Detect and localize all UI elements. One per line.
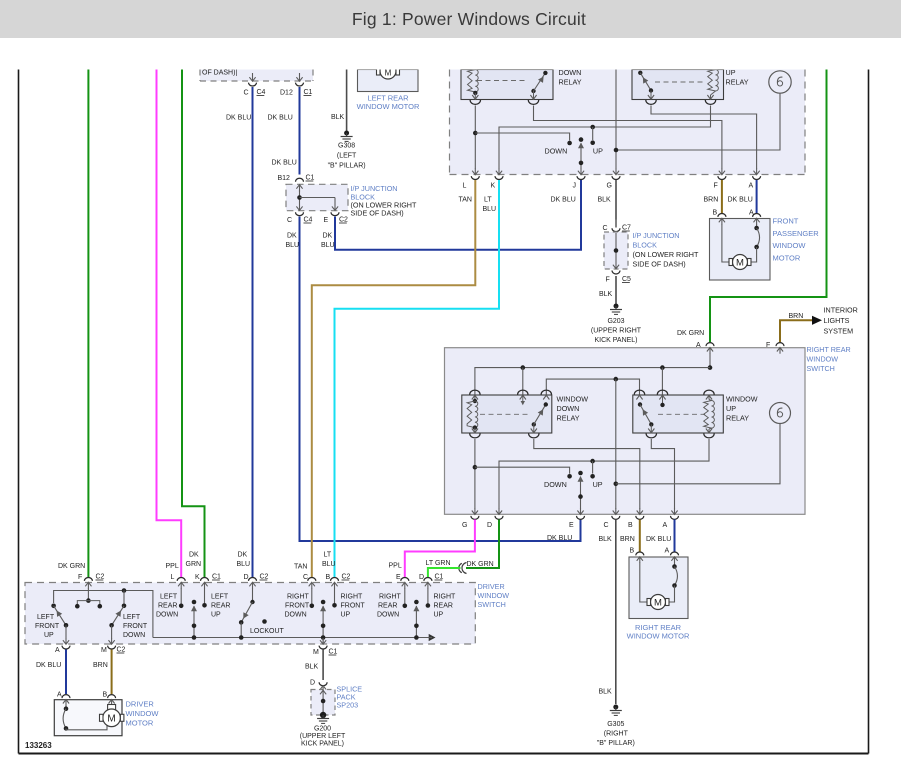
wire down relay coil to pin G [473,439,478,509]
svg-text:WINDOW: WINDOW [807,355,839,364]
svg-text:A: A [665,548,670,555]
right rear motor pin B [630,548,644,564]
svg-text:B12: B12 [278,175,291,182]
driver switch pin M C2 bottom [101,638,126,654]
svg-text:C2: C2 [342,574,351,581]
driver motor pin B [103,692,116,706]
right rear switch pin A [696,342,714,354]
svg-text:C: C [603,225,608,232]
wire DK BLU to driver motor pin A [36,650,66,695]
junction block 1 label [351,184,417,218]
svg-text:LEFT: LEFT [37,614,55,621]
splice pack SP203 box [311,690,335,716]
svg-text:DK GRN: DK GRN [58,563,85,570]
svg-text:DK: DK [323,233,333,240]
svg-text:OF DASH)|: OF DASH)| [202,70,237,77]
lockout switch [239,588,267,640]
svg-text:DK GRN: DK GRN [467,561,494,568]
I/P junction block (cut off at top) [200,70,313,82]
right rear down label (driver switch) [377,594,402,619]
svg-text:SP203: SP203 [337,701,359,710]
svg-text:DOWN: DOWN [123,632,145,639]
wire down relay switch to pin F [534,106,722,170]
driver switch feed bus [54,588,153,637]
motor pin A [749,210,761,225]
svg-text:G305: G305 [607,721,624,728]
svg-text:E: E [569,522,574,529]
driver switch pin L [166,563,186,589]
svg-text:DK BLU: DK BLU [36,662,61,669]
wire pin K to up relay coil [499,106,711,170]
svg-text:D: D [487,522,492,529]
svg-text:GRN: GRN [186,561,202,568]
svg-text:(ON LOWER RIGHT: (ON LOWER RIGHT [633,250,699,259]
passenger motor internal left wire [722,224,729,262]
left front down switch [109,604,126,639]
svg-text:G308: G308 [338,143,355,150]
svg-text:C: C [287,217,292,224]
svg-text:UP: UP [44,632,54,639]
pin D12 C1 of cut junction block [280,73,313,97]
pin C (right rear switch) [604,508,620,529]
svg-text:DK BLU: DK BLU [272,160,297,167]
wire BRN to driver motor pin B [93,650,112,695]
wire coil feed to DOWN contact (top box) [475,133,572,145]
lockout bus [153,634,436,641]
pin E (right rear switch) [569,508,585,529]
wire UP contact feed (right rear switch) [590,461,595,479]
svg-text:L: L [171,574,175,581]
svg-text:UP: UP [726,404,736,413]
svg-text:FRONT: FRONT [341,603,366,610]
right rear window switch box [445,348,806,515]
svg-text:BLU: BLU [322,561,336,568]
lamp wire to ground node [616,94,780,151]
window down relay (top box) [461,70,553,100]
left front up switch [51,604,68,639]
wire up relay switch to pin A (right rear switch) [651,439,674,509]
svg-text:C1: C1 [306,175,315,182]
switch mover to pin J (top box) [578,137,584,169]
driver switch pin F C2 [58,563,105,589]
svg-text:C: C [244,90,249,97]
svg-text:C2: C2 [339,217,348,224]
right rear switch pin F [766,342,784,354]
wire TAN pin L to driver switch pin C [294,180,475,577]
svg-text:G: G [462,522,467,529]
pin C C4 of cut junction block [244,73,266,97]
wire LT GRN splice to driver switch pin D [426,560,461,577]
window down relay pins top [470,390,552,405]
courtesy lamp (right rear switch) [770,403,791,424]
pin A bottom (right rear switch) [663,508,679,529]
svg-text:WINDOW MOTOR: WINDOW MOTOR [357,102,420,111]
svg-text:BRN: BRN [620,536,635,543]
wire DK BLU junction block1 E/C2 to window switch pin J [321,180,581,250]
right rear motor internal left wire [640,563,648,603]
svg-text:SWITCH: SWITCH [478,600,506,609]
passenger motor internal right wire with brush arc [751,224,760,262]
svg-text:BLK: BLK [331,114,345,121]
driver window switch label [478,582,510,609]
svg-text:RIGHT: RIGHT [379,594,402,601]
svg-text:C4: C4 [304,217,313,224]
window up relay box (right rear switch) [633,395,724,433]
motor pin B [713,210,726,225]
svg-text:UP: UP [434,612,444,619]
driver motor pin A [57,692,70,706]
up relay pin (switch) [646,95,656,104]
window up relay switch arm [638,402,654,433]
right front up label [341,594,366,619]
svg-text:TAN: TAN [294,564,307,571]
svg-text:B: B [103,692,108,699]
wire DK BLU D12 to I/P junction block pin B12 [268,87,300,175]
svg-text:K: K [195,574,200,581]
right rear window motor box [629,557,688,619]
front passenger window motor label [773,217,820,263]
svg-text:REAR: REAR [211,603,230,610]
driver switch pin B C2 [326,574,351,589]
svg-text:L: L [463,183,467,190]
wire down relay coil to pin L [473,106,478,170]
svg-text:DOWN: DOWN [545,147,568,156]
pin F contact bracket [75,588,102,609]
svg-text:DOWN: DOWN [377,612,399,619]
svg-text:RELAY: RELAY [557,414,580,423]
svg-text:BLK: BLK [599,689,613,696]
svg-text:MOTOR: MOTOR [126,719,154,728]
pin F C5 of junction block 2 [606,265,632,284]
svg-text:D: D [310,680,315,687]
switch mover to pin E (right rear switch) [578,471,584,509]
svg-text:BLU: BLU [483,206,497,213]
svg-text:DK GRN: DK GRN [677,330,704,337]
svg-text:WINDOW: WINDOW [773,241,807,250]
window down relay pins bottom [470,429,539,438]
svg-text:F: F [78,574,82,581]
driver switch pin D C2 [244,574,269,589]
svg-text:D12: D12 [280,90,293,97]
wire LT BLU pin K to driver switch pin B [322,180,499,577]
driver switch pin M C1 bottom [313,638,338,656]
svg-text:LT: LT [324,552,332,559]
svg-text:LT GRN: LT GRN [426,560,451,567]
up relay pin (coil) [705,95,715,104]
window up relay pins top [634,390,714,407]
svg-text:BRN: BRN [93,662,108,669]
svg-text:K: K [491,183,496,190]
wire coil feed to DOWN contact (right rear switch) [475,467,572,478]
down relay label [559,68,582,87]
window up relay (top box) [632,70,724,100]
svg-text:DK BLU: DK BLU [268,115,293,122]
right rear motor internal right wire with brush arc [669,563,678,603]
svg-text:UP: UP [593,480,603,489]
relay contact bus (right rear switch) [546,377,639,395]
pin C C7 of junction block 2 [603,220,632,236]
svg-text:DOWN: DOWN [544,480,567,489]
svg-text:LEFT: LEFT [211,594,229,601]
left rear switch mover [191,600,197,640]
junction block 1 internal wire [296,190,338,210]
UP label (right rear switch) [593,480,603,489]
right rear motor symbol [647,595,669,610]
svg-text:G203: G203 [607,318,624,325]
svg-text:DK: DK [238,552,248,559]
svg-text:B: B [630,548,635,555]
svg-text:M: M [313,649,319,656]
driver window switch box [25,583,475,645]
svg-text:WINDOW: WINDOW [478,591,510,600]
svg-text:M: M [654,598,662,609]
left rear down label [156,594,178,619]
wire DK BLU pin A to right rear motor [646,520,675,552]
svg-text:LIGHTS: LIGHTS [824,316,850,325]
wire BLK to splice pack [305,650,323,681]
right rear window switch label [807,345,851,373]
pin G (right rear switch) [462,508,479,529]
window down relay switch arm [532,402,548,433]
svg-text:G: G [607,183,612,190]
svg-text:MOTOR: MOTOR [773,253,801,262]
svg-text:DOWN: DOWN [559,68,582,77]
I/P junction block 2 box [604,232,628,269]
svg-text:C7: C7 [622,225,631,232]
svg-text:B: B [326,574,331,581]
svg-text:C5: C5 [622,276,631,283]
junction block 2 label [633,231,699,269]
right rear up label (driver switch) [434,594,457,619]
driver motor internal wire with brush arc [63,705,107,731]
splice pack label [337,685,363,710]
svg-text:C2: C2 [96,574,105,581]
svg-text:UP: UP [593,147,603,156]
wire pin D to up relay coil [499,439,709,509]
svg-text:DRIVER: DRIVER [126,700,155,709]
ground wire to pin C (right rear switch) [614,379,619,509]
svg-text:UP: UP [341,612,351,619]
left rear window motor label [357,94,420,112]
svg-text:(UPPER LEFT: (UPPER LEFT [300,733,346,740]
lamp wire (right rear switch) [616,424,780,484]
pin E C2 of junction block 1 [324,212,349,224]
left rear up label [211,594,230,619]
svg-text:F: F [606,277,610,284]
splice symbol DK GRN / LT GRN [459,563,467,574]
svg-text:B: B [713,210,718,217]
svg-text:M: M [736,258,744,269]
svg-text:DK BLU: DK BLU [728,197,753,204]
wire BLK pin G to junction block 2 [598,180,617,220]
svg-text:C1: C1 [435,574,444,581]
svg-text:G200: G200 [314,726,331,733]
svg-text:"B" PILLAR): "B" PILLAR) [597,740,635,747]
svg-text:TAN: TAN [459,197,472,204]
driver switch pin A bottom [55,638,70,654]
window up relay coil [704,395,715,433]
DOWN label (right rear switch) [544,480,567,489]
svg-text:LEFT: LEFT [160,594,178,601]
window up relay label [726,395,758,423]
svg-text:BLU: BLU [286,242,300,249]
svg-text:A: A [749,210,754,217]
svg-text:DK: DK [189,552,199,559]
svg-text:WINDOW: WINDOW [557,395,589,404]
right rear switch contacts (driver switch) [403,588,431,608]
svg-text:RIGHT: RIGHT [434,594,457,601]
svg-text:LOCKOUT: LOCKOUT [250,628,285,635]
pin F (top box) [714,169,726,190]
up relay coil [708,70,719,100]
svg-text:F: F [766,342,770,349]
window down relay box (right rear switch) [462,395,552,433]
right front down label [285,594,310,619]
ground wire to pin G (top box) [614,70,619,170]
svg-text:DK BLU: DK BLU [646,536,671,543]
driver window motor box [54,700,122,736]
svg-text:(RIGHT: (RIGHT [604,731,629,738]
svg-text:C1: C1 [329,649,338,656]
wire DK BLU pin A to passenger motor [728,180,757,213]
pin A feed bus (right rear switch) [475,353,712,395]
svg-text:DK BLU: DK BLU [226,115,251,122]
svg-text:KICK PANEL): KICK PANEL) [594,337,637,344]
down relay switch arm [531,71,547,100]
svg-text:(UPPER RIGHT: (UPPER RIGHT [591,328,642,335]
pin G (top box) [607,169,621,190]
driver window motor label [126,700,160,728]
interior lights system label [824,306,858,336]
wire BLK junction block 2 to G203 [599,276,616,304]
svg-text:UP: UP [211,612,221,619]
svg-text:A: A [696,342,701,349]
svg-text:BLK: BLK [599,536,613,543]
pin A (top box) [749,169,761,190]
svg-text:DOWN: DOWN [285,612,307,619]
svg-text:C2: C2 [260,574,269,581]
up relay switch arm [638,71,653,100]
svg-text:M: M [101,647,107,654]
svg-text:SWITCH: SWITCH [807,364,835,373]
svg-text:WINDOW MOTOR: WINDOW MOTOR [627,632,690,641]
pin L (top box) [463,169,480,190]
svg-text:BLK: BLK [305,664,319,671]
svg-text:UP: UP [726,68,736,77]
svg-text:D: D [244,574,249,581]
svg-text:LEFT: LEFT [123,614,141,621]
svg-text:REAR: REAR [378,603,397,610]
svg-text:BRN: BRN [704,197,719,204]
svg-text:BLU: BLU [237,561,251,568]
left front up label [35,614,60,639]
svg-text:M: M [107,714,115,725]
pin D (right rear switch) [487,508,503,529]
pin B12 C1 [278,175,315,193]
svg-text:J: J [573,183,577,190]
DOWN label (top box) [545,147,568,156]
svg-text:C: C [604,522,609,529]
wire DK GRN pin D to splice [466,520,499,569]
svg-text:RELAY: RELAY [726,78,749,87]
wire up relay switch to pin A [651,106,757,170]
svg-text:FRONT: FRONT [285,603,310,610]
svg-text:RIGHT: RIGHT [287,594,310,601]
window down relay label [557,395,589,423]
svg-text:F: F [714,183,718,190]
lockout label [250,628,285,635]
I/P junction block B12/C1 [286,184,348,210]
wire down relay switch to pin B [534,439,640,509]
junction block 2 internal wire [614,233,619,268]
svg-text:(LEFT: (LEFT [337,153,357,160]
svg-text:A: A [55,647,60,654]
left rear window motor (cut off at top) [358,63,419,92]
svg-text:BLOCK: BLOCK [633,241,658,250]
wire DK GRN from top to driver switch pin F [87,70,89,578]
down relay pin (coil) [470,95,480,104]
svg-text:RIGHT REAR: RIGHT REAR [807,345,851,354]
svg-text:SYSTEM: SYSTEM [824,327,854,336]
svg-text:RELAY: RELAY [559,78,582,87]
window down relay coil [467,395,478,433]
right rear window motor label [627,623,690,641]
svg-text:KICK PANEL): KICK PANEL) [301,741,344,748]
wire PPL pin G to driver switch pin E [389,520,475,578]
svg-text:C2: C2 [117,647,126,654]
svg-text:WINDOW: WINDOW [726,395,758,404]
svg-text:C1: C1 [212,574,221,581]
svg-text:REAR: REAR [434,603,453,610]
splice pack pin D [310,680,327,690]
left rear switch contacts [179,588,207,608]
svg-text:D: D [419,574,424,581]
up relay label [726,68,749,87]
svg-text:WINDOW: WINDOW [126,709,160,718]
svg-text:BRN: BRN [789,313,804,320]
pin J (top box) [573,169,586,190]
diagram number 133263 [25,741,52,750]
svg-text:C: C [303,574,308,581]
down relay pin (switch) [528,95,538,104]
right front switch mover [320,600,326,644]
svg-text:C1: C1 [304,89,313,96]
svg-text:A: A [663,522,668,529]
svg-text:E: E [396,574,401,581]
svg-text:PASSENGER: PASSENGER [773,229,820,238]
left rear window switch box (cut off at top) [450,70,806,175]
wire BLK pin C to G305 [599,520,616,705]
svg-text:PPL: PPL [389,563,402,570]
svg-text:PPL: PPL [166,563,179,570]
wire DK BLU C4 to driver switch pin D [226,87,253,577]
svg-text:DK BLU: DK BLU [547,535,572,542]
left front down label [123,614,148,639]
svg-text:FRONT: FRONT [123,623,148,630]
svg-text:DK BLU: DK BLU [551,197,576,204]
svg-text:B: B [628,522,633,529]
wire BLK to G308 [331,70,347,131]
svg-text:FRONT: FRONT [35,623,60,630]
driver switch pin E [396,574,409,589]
svg-text:BLK: BLK [599,291,613,298]
UP label (top box) [593,147,603,156]
right rear motor pin A [665,548,679,564]
svg-text:DOWN: DOWN [557,404,580,413]
svg-text:A: A [749,183,754,190]
front passenger motor symbol [729,255,751,270]
driver motor symbol [100,705,124,727]
